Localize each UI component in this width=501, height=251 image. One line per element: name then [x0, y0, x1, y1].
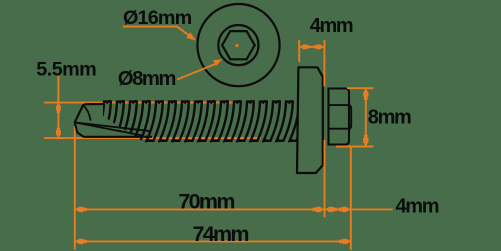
74mm dimension line [75, 240, 351, 242]
sealing washer side view [297, 67, 323, 173]
drill point outline [75, 104, 152, 137]
bottom 4mm arrow pointing left [325, 207, 336, 212]
74mm arrow left [75, 239, 86, 244]
74mm arrow right [339, 239, 350, 244]
extension line left (drill tip x=74.8) [74, 127, 76, 251]
top 4mm arrows [300, 44, 310, 49]
8mm dimension line [365, 88, 367, 146]
extension line top (shank top, y=102.6) [44, 102, 235, 104]
svg-text:5.5mm: 5.5mm [36, 58, 96, 80]
extension line bottom (shank bottom, y=138.1) [44, 137, 261, 139]
top 4mm dimension line [299, 46, 324, 48]
extension line x=324.5 mid segment [324, 140, 326, 217]
bottom 4mm dimension + leader [325, 208, 393, 210]
thread teeth [93, 100, 306, 143]
svg-text:4mm: 4mm [396, 196, 439, 218]
drill flute curve [83, 106, 90, 121]
dimension 5.5mm vertical line [57, 76, 59, 138]
top 4mm dimension extension right [323, 40, 325, 87]
hex facet line upper [329, 104, 350, 106]
head top-view inner circle [218, 25, 258, 65]
svg-text:Ø8mm: Ø8mm [118, 68, 176, 90]
5.5mm arrow up [56, 103, 61, 113]
8mm arrow down [363, 135, 368, 146]
Ø8mm leader line [177, 64, 216, 80]
8mm top extension [347, 87, 374, 89]
8mm arrow up [363, 89, 368, 100]
thread crest beaks bottom [93, 138, 295, 143]
svg-text:4mm: 4mm [310, 15, 353, 37]
extension line right x=350.8 [350, 147, 352, 250]
70mm arrow left [75, 207, 86, 212]
thread crest beaks top [104, 100, 306, 105]
hex head side view [349, 105, 351, 129]
Ø16mm leader underline [123, 27, 193, 39]
top 4mm dimension extension left [298, 40, 300, 62]
Ø8mm leader arrowhead [213, 59, 222, 66]
hex head top-view hexagon [222, 31, 255, 59]
70mm arrow right [313, 207, 324, 212]
svg-text:74mm: 74mm [193, 222, 249, 246]
70mm dimension line [75, 208, 324, 210]
drill cutting edge diagonal A [75, 122, 151, 131]
drill point body fill [75, 104, 103, 137]
hex facet line lower [329, 128, 350, 130]
center dot [235, 44, 238, 47]
washer top-view outer circle [197, 4, 279, 86]
svg-text:8mm: 8mm [368, 106, 411, 128]
svg-text:70mm: 70mm [178, 189, 234, 213]
drill cutting edge diagonal B [75, 122, 143, 135]
8mm bottom extension [336, 146, 374, 148]
Ø16mm leader arrowhead [186, 32, 196, 40]
bottom 4mm arrow pointing right [339, 207, 350, 212]
5.5mm arrow down [56, 128, 61, 138]
svg-text:Ø16mm: Ø16mm [123, 7, 192, 29]
